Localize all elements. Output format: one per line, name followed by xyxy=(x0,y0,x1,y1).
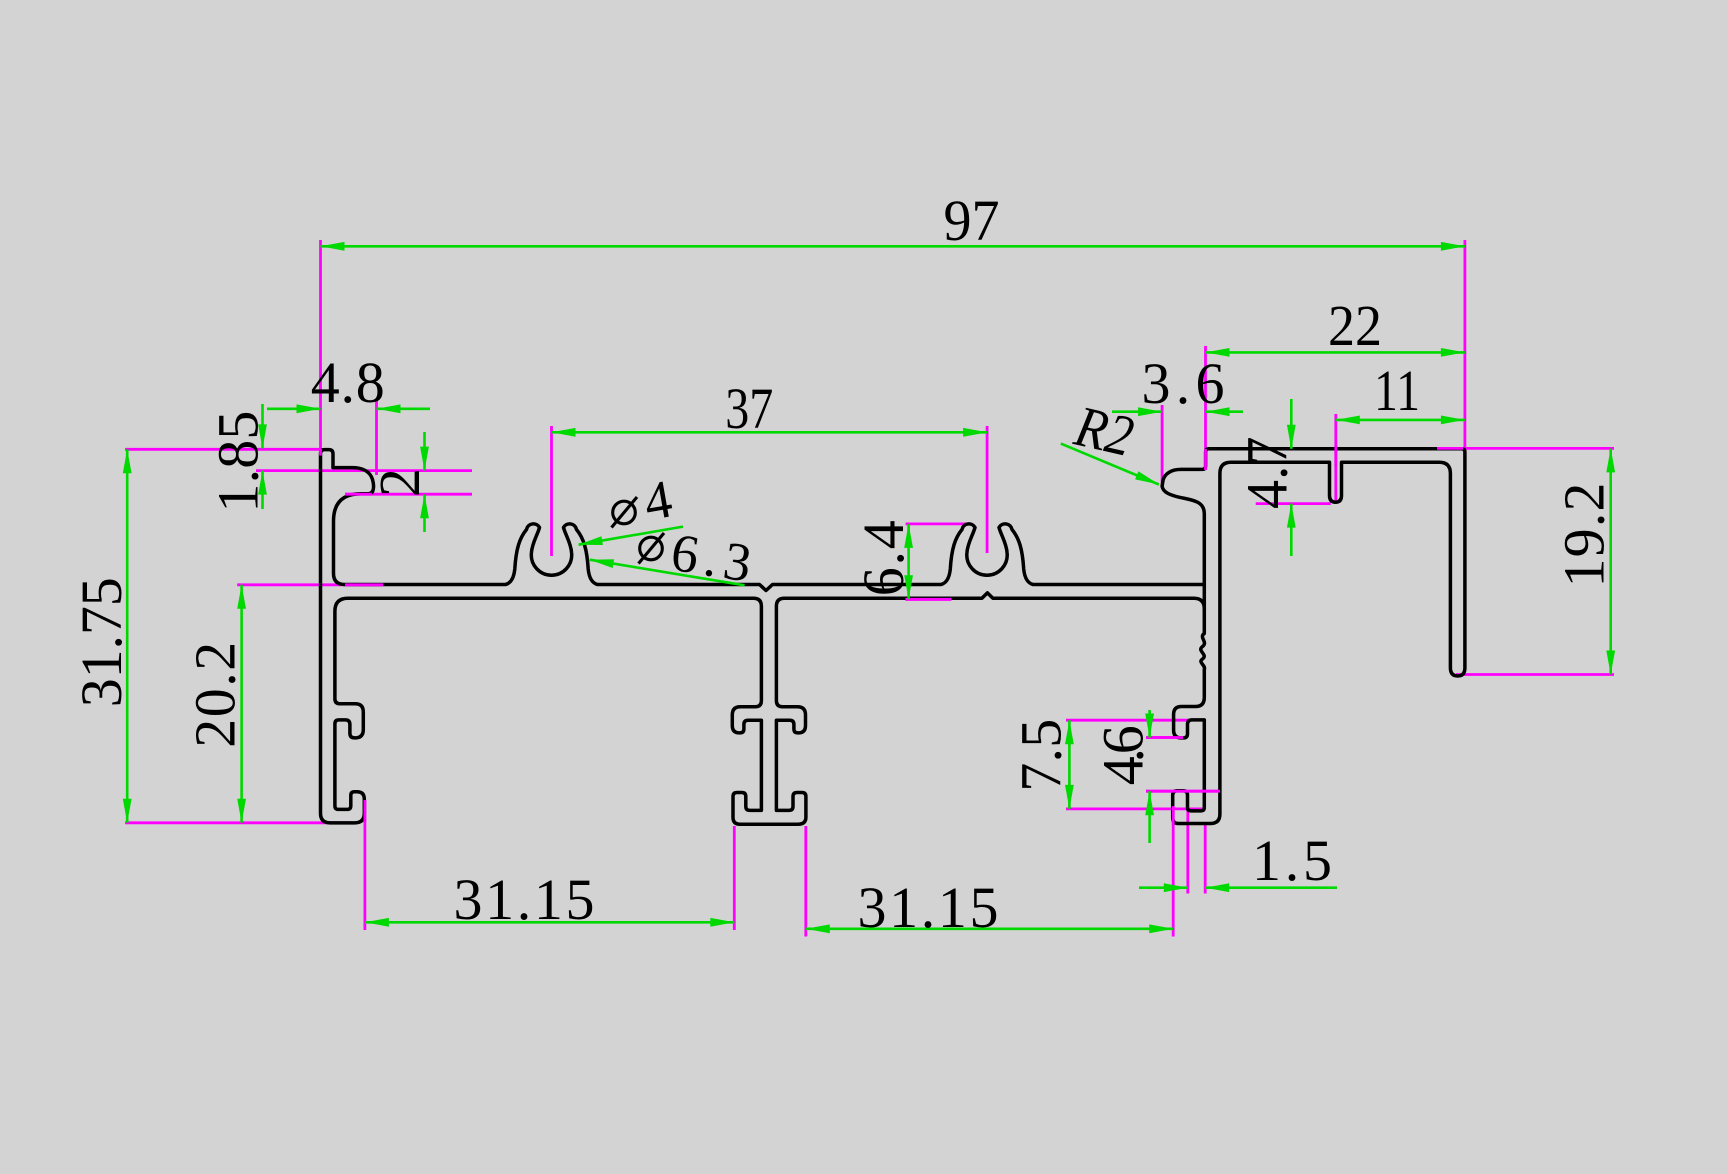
ext overlay: 4.6 top over hook bottom edge xyxy=(1146,736,1183,739)
ext overlay: 2 bottom over flange bottom edge xyxy=(345,493,372,496)
ext 97 left / wall top xyxy=(319,240,322,456)
ext 37 right into boss2 xyxy=(986,426,989,553)
ext 7.5 bottom xyxy=(1066,808,1205,811)
svg-text:31.15: 31.15 xyxy=(858,875,999,940)
dim 4.8 arrows xyxy=(267,407,321,410)
leader phi4 xyxy=(579,527,684,545)
ext 1.85 bottom / 2 top xyxy=(256,469,472,472)
svg-text:4.7: 4.7 xyxy=(1235,436,1300,509)
dim 22 xyxy=(1206,351,1465,354)
ext 31.15b right xyxy=(1172,806,1175,937)
ext 11 left through fin xyxy=(1334,414,1337,502)
dim 19.2 xyxy=(1609,448,1612,674)
ext 31.75/1.85 top xyxy=(125,448,321,451)
dim 20.2 xyxy=(240,585,243,823)
svg-text:6.3: 6.3 xyxy=(667,522,755,594)
ext 97+22+11 right corner xyxy=(1464,240,1467,460)
symbol phi of phi4 xyxy=(612,497,638,528)
ext overlay: 6.4 bottom over web bottom line xyxy=(905,598,951,601)
ext 37 left into boss1 xyxy=(550,426,553,556)
svg-text:4.8: 4.8 xyxy=(311,350,385,415)
ext 1.5 right xyxy=(1204,824,1207,894)
dim 7.5 xyxy=(1068,720,1071,809)
dim 31.75 xyxy=(126,449,129,823)
svg-text:31.75: 31.75 xyxy=(69,577,134,707)
ext 19.2 bottom xyxy=(1456,673,1614,676)
svg-text:22: 22 xyxy=(1328,293,1382,358)
svg-text:20.2: 20.2 xyxy=(183,642,248,748)
ext 19.2 top xyxy=(1437,447,1614,450)
right section closed outline xyxy=(1162,449,1465,824)
svg-text:11: 11 xyxy=(1374,358,1420,423)
ext 3.6 left xyxy=(1161,405,1164,486)
svg-text:97: 97 xyxy=(944,188,1000,253)
ext 31.15b left xyxy=(804,826,807,937)
ext 31.75 bottom xyxy=(125,821,352,824)
svg-text:6.4: 6.4 xyxy=(851,520,916,596)
ext 6.4 bottom xyxy=(905,598,951,601)
svg-text:19.2: 19.2 xyxy=(1552,483,1617,588)
ext 4.6 top xyxy=(1146,736,1183,739)
ext overlay: 22 left over step vertical xyxy=(1204,449,1207,470)
ext 6.4 top xyxy=(906,523,968,526)
dim 31.15 a xyxy=(365,921,734,924)
symbol phi of phi6.3 xyxy=(639,533,665,564)
ext overlay: 97 left over wall top xyxy=(319,449,322,456)
svg-text:7.5: 7.5 xyxy=(1009,719,1074,792)
svg-text:4.6: 4.6 xyxy=(1091,725,1156,785)
svg-text:37: 37 xyxy=(725,376,773,441)
dim 1.85 arrows xyxy=(261,404,264,448)
ext 4.7 bottom xyxy=(1256,502,1331,505)
ext overlay: 19.2 top over beam edge right end xyxy=(1437,447,1463,450)
ext 7.5 top xyxy=(1066,719,1190,722)
dim 3.6 arrows xyxy=(1112,410,1162,413)
ext 3.6 right / 22 left xyxy=(1204,346,1207,470)
dim 4.7 arrows xyxy=(1290,399,1293,449)
ext overlay: 20.2 top over web top line xyxy=(345,583,383,586)
dim 1.5 arrows xyxy=(1139,886,1188,889)
flange + glazing groove + web top + bosses xyxy=(333,468,1204,591)
leader phi6.3 xyxy=(590,560,745,586)
left wall outline with lip, bottom foot, gasket hooks, web bottom, center divider, divider foot, chamber fillet xyxy=(321,450,1205,825)
ext 2 bottom xyxy=(345,493,472,496)
ext 4.6 bottom xyxy=(1146,790,1220,793)
leader R2 xyxy=(1061,444,1159,485)
dim 6.4 xyxy=(907,524,910,599)
dim 4.6 arrows xyxy=(1148,710,1151,738)
dim 11 xyxy=(1336,419,1465,422)
ext overlay: 31.15b right over right-box foot left edge xyxy=(1172,806,1175,825)
ext overlay: 4.6 bottom over hook top edge xyxy=(1146,790,1220,793)
ext 31.15a right xyxy=(733,826,736,930)
ext overlay: 31.15a left over foot right edge xyxy=(363,800,366,822)
ext 4.8 right (flange tip) xyxy=(375,399,378,475)
dim 37 xyxy=(552,431,988,434)
dim 97 xyxy=(321,245,1465,248)
dim 31.15 b xyxy=(806,927,1173,930)
svg-text:1.5: 1.5 xyxy=(1252,828,1332,893)
svg-text:2: 2 xyxy=(367,468,432,497)
ext 1.5 left xyxy=(1186,810,1189,894)
dim 2 arrows xyxy=(423,432,426,471)
svg-text:1.85: 1.85 xyxy=(206,411,271,513)
svg-text:3.6: 3.6 xyxy=(1142,351,1225,416)
svg-text:31.15: 31.15 xyxy=(454,867,595,932)
ext overlay: 11 left over beam xyxy=(1334,445,1337,466)
ext 20.2 top xyxy=(237,583,383,586)
ext 4.7 top xyxy=(1270,448,1307,451)
ext 31.15a left xyxy=(363,800,366,930)
